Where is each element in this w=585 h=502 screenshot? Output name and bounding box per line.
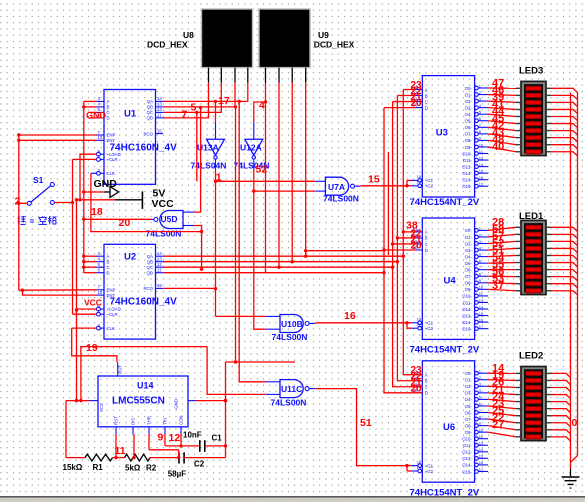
svg-text:O7-: O7- (465, 274, 473, 279)
svg-text:D: D (425, 248, 428, 253)
switch S1 (27, 183, 54, 206)
wire net 4 branch (254, 102, 266, 122)
label LED3 (519, 66, 543, 77)
svg-text:ENP: ENP (107, 133, 116, 138)
svg-text:U3: U3 (436, 128, 448, 139)
svg-text:QB: QB (147, 259, 153, 264)
net label 11 (115, 445, 126, 457)
svg-text:19: 19 (417, 322, 422, 327)
svg-text:O13-: O13- (462, 171, 472, 176)
value label 10nF C1 (183, 431, 202, 440)
net label 4 (259, 100, 265, 112)
wire C1 right (205, 445, 226, 447)
svg-text:QA: QA (147, 99, 153, 104)
net label 15 (368, 174, 380, 186)
seven-seg display U9 DCD_HEX (259, 9, 310, 68)
svg-text:O12-: O12- (462, 164, 472, 169)
svg-text:R2: R2 (146, 464, 157, 473)
svg-text:O2-: O2- (465, 99, 473, 104)
svg-text:DCD_HEX: DCD_HEX (147, 40, 188, 50)
net label 1 (216, 172, 222, 184)
svg-text:CLK: CLK (107, 171, 115, 176)
svg-text:O11-: O11- (463, 300, 473, 305)
svg-text:13: 13 (157, 257, 162, 262)
junction net4 (264, 100, 267, 103)
pin 3 U9 (291, 68, 293, 83)
capacitor C1 (200, 440, 205, 452)
svg-text:O9-: O9- (465, 145, 473, 150)
net label 22 U3 (411, 86, 423, 97)
svg-text:B: B (107, 259, 110, 264)
svg-text:O8-: O8- (465, 281, 473, 286)
svg-text:37: 37 (492, 280, 504, 292)
value label 74LS00N U5D (146, 229, 182, 239)
wire U1 C (88, 111, 97, 113)
svg-text:VCC: VCC (152, 198, 175, 210)
svg-text:17: 17 (479, 324, 484, 329)
value label 74HC154NT_2V U6 (410, 488, 480, 499)
svg-text:14: 14 (479, 304, 484, 309)
svg-text:10: 10 (98, 290, 103, 295)
svg-text:O1-: O1- (465, 92, 473, 97)
counter U2 74HC160N_4V (97, 244, 164, 339)
value label 5kΩ R2 (125, 464, 141, 473)
wire U1 LOAD to VCC (78, 154, 96, 201)
svg-text:D: D (107, 116, 110, 121)
svg-text:O14-: O14- (462, 320, 472, 325)
svg-text:11: 11 (157, 268, 162, 273)
junction U9p4 (304, 255, 307, 258)
svg-text:C: C (107, 265, 110, 270)
net label 22 U4 (411, 228, 423, 239)
value label 74LS04N U13A (191, 161, 227, 171)
wire U10B output net16 (315, 321, 411, 328)
wire tap U4 A (402, 230, 416, 233)
svg-text:O3-: O3- (465, 105, 473, 110)
svg-text:O6-: O6- (465, 125, 473, 130)
svg-text:0: 0 (572, 417, 578, 429)
svg-text:U4: U4 (444, 276, 457, 287)
svg-text:OUT: OUT (118, 365, 123, 374)
wires U3 outputs to LED (488, 88, 516, 152)
svg-text:52: 52 (256, 164, 268, 176)
svg-text:74HC154NT_2V: 74HC154NT_2V (410, 197, 480, 208)
svg-text:~G2: ~G2 (425, 184, 434, 189)
svg-text:16: 16 (479, 175, 484, 180)
wire U2 RCO (163, 287, 216, 289)
svg-text:74LS00N: 74LS00N (271, 398, 307, 408)
pin 4 U9 (305, 68, 307, 83)
svg-text:58µF: 58µF (168, 470, 187, 479)
svg-text:U6: U6 (443, 422, 455, 433)
svg-text:B: B (425, 236, 428, 241)
svg-text:A: A (107, 254, 110, 259)
svg-text:O5-: O5- (465, 261, 473, 266)
svg-text:U9: U9 (318, 30, 329, 40)
svg-text:O2-: O2- (465, 384, 473, 389)
value label 74LS00N U10B (272, 332, 308, 342)
svg-text:~CLR: ~CLR (107, 312, 118, 317)
svg-text:O6-: O6- (465, 268, 473, 273)
wire bus B net22 (397, 96, 422, 381)
svg-text:LED3: LED3 (519, 66, 543, 77)
svg-text:O1-: O1- (465, 235, 473, 240)
nand gate U5D 74LS00N (148, 211, 194, 229)
wire U9 pin3 to QB2 (291, 83, 293, 262)
svg-text:~CLR: ~CLR (107, 157, 118, 162)
wire CLR net vertical (72, 159, 74, 314)
svg-text:19: 19 (417, 180, 422, 185)
label C1 (212, 434, 223, 443)
svg-text:B: B (107, 105, 110, 110)
resistor R1 (85, 454, 113, 461)
svg-text:74HC160N_4V: 74HC160N_4V (110, 143, 178, 154)
wire VCC line1 (79, 347, 207, 403)
wire U5D top input net5 (194, 106, 202, 212)
wire U1 CLK (91, 172, 97, 174)
wires U6 LED common (551, 373, 571, 441)
pin numbers U4 (413, 227, 422, 327)
wire U11C output net51 (315, 389, 411, 471)
svg-text:5kΩ: 5kΩ (125, 464, 141, 473)
svg-text:~G1: ~G1 (425, 178, 434, 183)
svg-text:14: 14 (479, 447, 484, 452)
svg-text:O13-: O13- (462, 313, 472, 318)
value label 74LS00N U11C (271, 398, 307, 408)
net label 38 (406, 220, 418, 232)
net label 23 U6 (411, 365, 423, 376)
svg-text:LMC555CN: LMC555CN (112, 396, 165, 407)
value label 74HC160N_4V U2 (110, 297, 178, 308)
timer U14 LMC555CN (98, 376, 188, 427)
wire TRI net12 (165, 434, 200, 448)
svg-text:LED1: LED1 (519, 211, 544, 222)
svg-text:13: 13 (479, 155, 484, 160)
capacitor C2 (179, 452, 184, 463)
power symbol VCC 5V (77, 191, 143, 209)
svg-text:O15-: O15- (462, 469, 472, 474)
svg-text:D: D (107, 270, 110, 275)
svg-text:1: 1 (522, 152, 524, 156)
svg-text:U14: U14 (137, 381, 154, 391)
net label 23 U3 (411, 80, 423, 91)
wire gnd net vertical (224, 362, 227, 458)
svg-text:CLK: CLK (107, 326, 115, 331)
wire net 17 QA row (163, 100, 248, 102)
svg-text:O4-: O4- (465, 397, 473, 402)
pin numbers U3 (413, 85, 422, 185)
wire U1 D (88, 117, 97, 119)
svg-text:C1: C1 (212, 434, 223, 443)
digital ground symbol GND (82, 187, 118, 198)
wire net52 to U7A (254, 190, 316, 192)
svg-text:15: 15 (479, 311, 484, 316)
wire net38 feeder (304, 249, 383, 252)
wire tap U4 C (391, 242, 416, 245)
svg-text:19: 19 (417, 465, 422, 470)
svg-text:A: A (425, 87, 428, 92)
svg-text:DCD_HEX: DCD_HEX (314, 40, 355, 50)
net label 21 U4 (411, 234, 423, 245)
svg-text:16: 16 (479, 460, 484, 465)
svg-text:18: 18 (91, 206, 103, 218)
label LED2 (519, 351, 543, 362)
net label 20 U3 (411, 98, 423, 109)
svg-text:U8: U8 (183, 30, 194, 40)
svg-text:RCO: RCO (143, 286, 153, 291)
svg-text:O14-: O14- (462, 178, 472, 183)
svg-text:13: 13 (479, 298, 484, 303)
svg-text:QC: QC (147, 265, 153, 270)
wire QC2 row (163, 266, 394, 269)
svg-text:O3-: O3- (465, 248, 473, 253)
wire net1 to U10B (216, 315, 266, 317)
svg-text:O15-: O15- (462, 326, 472, 331)
net label 17 (218, 95, 230, 107)
svg-text:O15-: O15- (462, 184, 472, 189)
decoder U4 74HC154 (411, 218, 488, 339)
svg-text:O0-: O0- (465, 228, 473, 233)
svg-text:O3-: O3- (465, 391, 473, 396)
svg-text:TRI: TRI (163, 418, 168, 425)
wire VCC vertical (75, 198, 78, 402)
svg-text:27: 27 (492, 419, 504, 431)
value label DCD_HEX U8 (147, 40, 188, 50)
svg-text:D: D (425, 105, 428, 110)
junction U9p2 (277, 266, 280, 269)
svg-text:20: 20 (411, 240, 423, 251)
wire net1 to U7A (216, 180, 316, 182)
value label 74HC154NT_2V U4 (410, 345, 480, 356)
svg-text:QB: QB (147, 105, 153, 110)
value label 74LS00N U7A (323, 194, 359, 204)
wire bottom rail (66, 401, 226, 458)
resistor R2 (125, 454, 151, 461)
label VCC (152, 198, 175, 210)
junction QA-U13A (214, 100, 217, 103)
svg-text:10nF: 10nF (183, 431, 202, 440)
svg-text:C: C (107, 110, 110, 115)
wire U14 GND pin (195, 399, 227, 402)
wires U6 outputs to LED (488, 373, 516, 437)
wire bus extra (387, 152, 389, 255)
net label 18 (91, 206, 103, 218)
svg-text:20: 20 (411, 383, 423, 394)
wire QA2 row (163, 255, 405, 258)
wire U2 B (84, 261, 97, 263)
label U9 (318, 30, 329, 40)
pin 2 U8 (220, 68, 222, 83)
svg-text:10: 10 (479, 285, 484, 290)
net label 0 (572, 417, 578, 429)
svg-text:17: 17 (479, 182, 484, 187)
wire U1 CLR (73, 158, 97, 160)
seven-seg display U8 DCD_HEX (202, 9, 253, 68)
svg-text:14: 14 (479, 162, 484, 167)
wires U3 LED common (551, 88, 578, 156)
wire U12A output net52 (252, 170, 266, 330)
label U10B (281, 319, 303, 329)
wire switch contact to CLR net (54, 201, 74, 204)
svg-text:GND: GND (94, 178, 118, 190)
net label GND U1 (86, 111, 107, 121)
svg-text:A: A (107, 99, 110, 104)
bar display LED3 (516, 81, 551, 156)
svg-text:U12A: U12A (240, 142, 262, 152)
junction U9p3 (291, 260, 294, 263)
wire DIS down net11 (133, 434, 135, 458)
label U12A (240, 142, 262, 152)
svg-text:~G1: ~G1 (425, 463, 434, 468)
wire U2 A (84, 255, 97, 257)
svg-text:13: 13 (479, 441, 484, 446)
svg-text:4: 4 (259, 100, 265, 112)
svg-text:D: D (425, 391, 428, 396)
net labels U4 LED wires (492, 217, 505, 292)
svg-text:O2-: O2- (465, 241, 473, 246)
svg-text:C: C (425, 385, 428, 390)
svg-text:12: 12 (157, 262, 162, 267)
svg-text:O9-: O9- (465, 287, 473, 292)
net label 16 (344, 310, 356, 322)
net labels U6 LED wires (492, 363, 505, 431)
wire U2 D (84, 272, 97, 274)
wire net2 U2 ENT (21, 289, 97, 296)
value label 58µF C2 (168, 470, 187, 479)
nand gate U10B 74LS00N (266, 315, 316, 333)
svg-text:1: 1 (522, 291, 524, 295)
junction rail R1R2 (132, 456, 135, 459)
svg-text:O1-: O1- (465, 378, 473, 383)
svg-text:C: C (425, 99, 428, 104)
svg-text:C2: C2 (194, 460, 205, 469)
pin numbers U6 (413, 370, 422, 470)
svg-text:O10-: O10- (462, 437, 472, 442)
svg-text:U1: U1 (124, 108, 137, 119)
net label 52 (256, 164, 268, 176)
wire U8 pin4 riser (247, 83, 249, 102)
wire U8 pin2 to QC (163, 83, 221, 113)
svg-text:U2: U2 (124, 252, 136, 263)
wire gnd net top (226, 361, 296, 363)
wire net18 vertical (82, 101, 85, 272)
svg-text:A: A (425, 230, 428, 235)
wire net19 to U11C (207, 347, 266, 395)
svg-text:THR: THR (147, 416, 152, 425)
pin 4 U8 (247, 68, 249, 83)
svg-text:74LS00N: 74LS00N (146, 229, 182, 239)
pin 3 U8 (234, 68, 236, 83)
bar display LED1 (516, 220, 551, 295)
svg-text:O11-: O11- (463, 158, 473, 163)
svg-text:15kΩ: 15kΩ (63, 463, 83, 472)
wire U8 pin3 to QB (163, 83, 237, 364)
wire U2 CLK net19 (72, 328, 117, 362)
value label 74LS04N U12A (234, 161, 270, 171)
svg-text:O10-: O10- (462, 151, 472, 156)
svg-text:16: 16 (479, 317, 484, 322)
net label 5 (191, 102, 197, 114)
svg-text:18: 18 (417, 317, 422, 322)
svg-text:U5D: U5D (161, 214, 178, 224)
svg-text:QC: QC (147, 110, 153, 115)
label U8 (183, 30, 194, 40)
svg-text:12: 12 (169, 432, 181, 444)
value label DCD_HEX U9 (314, 40, 355, 50)
svg-text:O8-: O8- (465, 423, 473, 428)
junction QA-bus17 (238, 100, 241, 103)
label 5V (153, 188, 166, 200)
svg-text:~G2: ~G2 (425, 326, 434, 331)
svg-text:74LS04N: 74LS04N (191, 161, 227, 171)
svg-text:O4-: O4- (465, 112, 473, 117)
wire U13A input (215, 101, 217, 139)
svg-text:QA: QA (147, 254, 153, 259)
svg-text:O0-: O0- (465, 86, 473, 91)
svg-text:14: 14 (157, 96, 162, 101)
svg-text:O10-: O10- (462, 294, 472, 299)
wire tap U4 D (382, 248, 416, 251)
net label 21 U3 (411, 92, 423, 103)
label U11C (281, 384, 302, 394)
wire switch pole (19, 202, 28, 204)
svg-text:10: 10 (479, 142, 484, 147)
wire net18 U5D output (84, 218, 152, 220)
svg-text:10: 10 (479, 427, 484, 432)
svg-text:U10B: U10B (281, 319, 303, 329)
svg-text:18: 18 (417, 174, 422, 179)
svg-text:17: 17 (218, 95, 230, 107)
wire CON down (180, 434, 182, 446)
svg-text:O13-: O13- (462, 456, 472, 461)
svg-text:VCC: VCC (99, 403, 104, 412)
net label 22 U6 (411, 371, 423, 382)
value label LMC555CN U14 (112, 396, 165, 407)
svg-text:O5-: O5- (465, 404, 473, 409)
inverter U13A 74LS04N (207, 139, 225, 169)
net label 51 (360, 417, 372, 429)
wire net2 U1 ENP (19, 134, 97, 136)
svg-text:O0-: O0- (465, 371, 473, 376)
window edge (0, 497, 585, 502)
ground symbol (bottom right) (562, 469, 580, 488)
svg-text:16: 16 (344, 310, 356, 322)
wire U8 pin1 to QD (163, 83, 209, 118)
value label 74HC160N_4V U1 (110, 143, 178, 154)
wire U5D bottom input (194, 226, 203, 271)
label U7A (328, 182, 345, 192)
svg-text:74LS00N: 74LS00N (323, 194, 359, 204)
svg-text:C: C (425, 242, 428, 247)
svg-text:1: 1 (216, 172, 222, 184)
wire net2 vertical (17, 133, 20, 290)
wire stub net7 drop (195, 111, 198, 182)
svg-text:O8-: O8- (465, 138, 473, 143)
svg-text:18: 18 (417, 459, 422, 464)
wire right trunk B (571, 93, 578, 463)
pin 2 U9 (278, 68, 280, 83)
label LED1 (519, 211, 544, 222)
pins U14 (90, 362, 195, 434)
net label 20 U6 (411, 383, 423, 394)
net label 7 (182, 109, 188, 121)
svg-text:14: 14 (157, 251, 162, 256)
wire U14 VCC pin (66, 399, 90, 402)
svg-text:20: 20 (411, 98, 423, 109)
net label 20 (119, 217, 131, 229)
svg-text:19: 19 (86, 342, 98, 354)
svg-text:15: 15 (157, 128, 162, 133)
